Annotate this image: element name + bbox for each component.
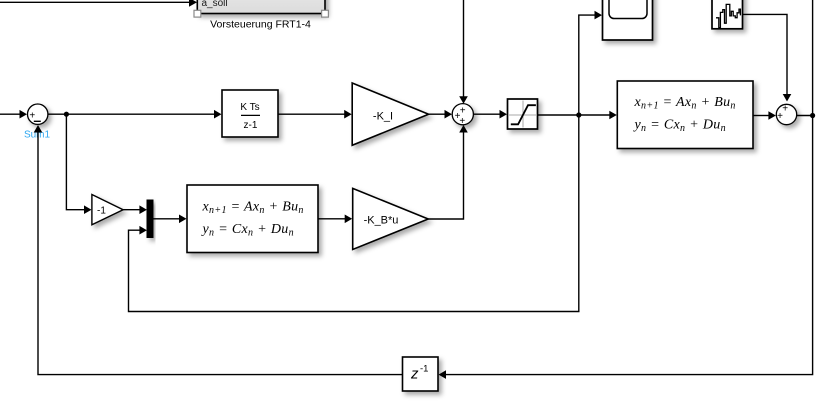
selection handle bottom-right [322,10,329,17]
svg-text:+: + [782,104,788,115]
scope block (cut off at top) [603,0,653,40]
block state-space lower [187,185,318,253]
gain -K_I [352,83,428,145]
wire -1 gain to mux [123,205,147,214]
block discrete transfer fcn K Ts / z-1 [222,90,278,137]
svg-text:z-1: z-1 [244,120,258,131]
svg-text:-1: -1 [97,206,106,217]
wire right junction down and left to unit delay [439,116,813,379]
svg-text:-1: -1 [420,364,428,375]
wire right sum output with junction [797,115,813,117]
wire random stairs to right sum top [743,14,792,101]
wire from above into middle sum top [459,0,468,104]
svg-text:K Ts: K Ts [240,102,259,113]
sum Sum1 [28,104,48,124]
wire gain -K_B*u up to middle sum bottom [428,125,468,219]
svg-text:+: + [459,116,465,127]
source block random stairs (cut off at top) [712,0,743,29]
wire mux to state-space 2 [154,215,187,224]
wire junction up to scope [579,11,602,115]
wire gain -K_I to middle sum [429,110,452,119]
junction node right [810,113,815,118]
wire K Ts block to gain -K_I [278,110,352,119]
wire saturation to state-space (right) [538,111,617,120]
sum right [776,104,796,125]
sum middle (3 plus) [452,104,473,127]
svg-text:z: z [410,366,419,383]
block state-space right [617,81,753,149]
svg-text:+: + [777,111,783,122]
wire middle sum to saturation [473,110,507,119]
wire vertical at right edge top [812,0,814,116]
wire unit delay output left and up to Sum1 bottom [34,125,403,375]
junction node after saturation [576,112,581,117]
block saturation [508,99,538,129]
svg-text:Vorsteuerung FRT1-4: Vorsteuerung FRT1-4 [210,19,311,31]
mux [147,200,153,238]
svg-text:-K_B*u: -K_B*u [364,215,399,227]
selection handle bottom-left [194,10,201,17]
svg-text:+: + [29,111,35,122]
svg-text:-K_I: -K_I [373,111,393,123]
gain -1 [92,195,123,225]
wire junction down to -1 gain [66,114,91,214]
svg-text:yn = Cxn + Dun: yn = Cxn + Dun [633,118,726,135]
wire state-space 2 to gain -K_B*u [318,215,352,224]
wire main input into Sum1 [0,110,27,119]
wire into Vorsteuerung subsystem [0,0,197,7]
wire state-space right to right sum [753,111,776,120]
svg-text:+: + [460,105,466,116]
subsystem Vorsteuerung FRT1-4 (cut off at top) [197,0,325,14]
wire Sum1 output to K Ts block [48,110,222,119]
svg-text:a_soll: a_soll [202,0,228,9]
junction node after Sum1 [64,112,69,117]
svg-text:yn = Cxn + Dun: yn = Cxn + Dun [201,222,294,239]
block unit delay z^-1 [403,357,439,391]
gain -K_B*u [353,188,429,249]
wire junction down to mux (inner feedback) [129,115,579,312]
